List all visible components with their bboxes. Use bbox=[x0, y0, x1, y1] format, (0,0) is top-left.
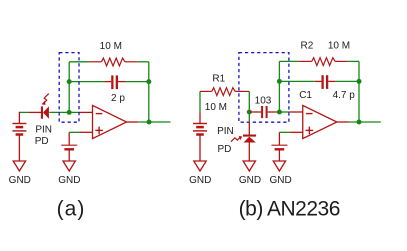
svg-text:4.7 p: 4.7 p bbox=[333, 90, 356, 101]
node dot B5 output bbox=[357, 120, 362, 125]
bias cell (a) bbox=[61, 132, 77, 161]
node dot B2 bbox=[277, 110, 282, 115]
wire top row to R2 bbox=[279, 60, 299, 62]
wire photodiode to inverting node bbox=[49, 111, 79, 113]
wire top row to resistor (a) bbox=[69, 61, 89, 63]
node dot B1 bbox=[247, 110, 252, 115]
battery V1 bbox=[12, 124, 26, 161]
capacitor 103 bbox=[249, 106, 279, 118]
wire C1 to right vertical bbox=[336, 80, 359, 82]
wire cap to right vertical (a) bbox=[126, 81, 149, 83]
node dot A2 bbox=[67, 79, 72, 84]
ground under photodiode D2 bbox=[239, 161, 261, 186]
inverting input stub (b) bbox=[290, 111, 303, 113]
wire cap row left (a) bbox=[69, 81, 104, 83]
svg-text:PD: PD bbox=[35, 136, 49, 147]
battery V2 bbox=[193, 91, 207, 160]
svg-text:GND: GND bbox=[239, 175, 261, 186]
svg-text:R1: R1 bbox=[212, 73, 225, 84]
svg-text:GND: GND bbox=[189, 175, 211, 186]
wire battery V1 top to photodiode (red corner + green segment) bbox=[19, 112, 41, 124]
svg-text:103: 103 bbox=[255, 95, 272, 106]
wire left vertical feedback (b) bbox=[278, 61, 280, 112]
svg-text:PIN: PIN bbox=[217, 126, 234, 137]
svg-text:PD: PD bbox=[217, 144, 231, 155]
node dot B3 bbox=[277, 79, 282, 84]
ground under bias cell (a) bbox=[58, 161, 80, 186]
output wire (a) bbox=[127, 121, 171, 123]
output wire (b) bbox=[337, 121, 381, 123]
svg-text:GND: GND bbox=[269, 175, 291, 186]
svg-text:GND: GND bbox=[58, 175, 80, 186]
svg-text:PIN: PIN bbox=[35, 124, 52, 135]
photodiode D1 (PIN PD) bbox=[41, 94, 49, 119]
wire node to inverting stub (b) bbox=[279, 111, 289, 113]
node dot A4 output bbox=[147, 120, 152, 125]
node dot B4 bbox=[357, 79, 362, 84]
non-inverting input stub (b) bbox=[279, 131, 302, 133]
capacitor C1 4.7p bbox=[315, 75, 336, 89]
photodiode D2 (PIN PD) bbox=[231, 112, 256, 161]
bias cell (b) bbox=[271, 132, 287, 161]
svg-text:(a): (a) bbox=[57, 198, 86, 221]
svg-text:GND: GND bbox=[9, 175, 31, 186]
wire right vertical (a) bbox=[148, 62, 150, 122]
ground under battery V1 bbox=[9, 161, 31, 186]
wire resistor to right vertical (a) bbox=[138, 61, 149, 63]
inverting input stub (a) bbox=[80, 111, 93, 113]
resistor R1 10M bbox=[200, 88, 249, 96]
svg-text:(b) AN2236: (b) AN2236 bbox=[239, 198, 340, 221]
ground under bias cell (b) bbox=[269, 161, 291, 186]
wire left vertical feedback (a) bbox=[68, 62, 70, 113]
node dot A3 bbox=[146, 79, 151, 84]
resistor R2 10M bbox=[299, 58, 348, 66]
capacitor 2p (a) bbox=[105, 75, 126, 89]
ground under battery V2 bbox=[189, 161, 211, 186]
svg-text:10 M: 10 M bbox=[100, 41, 122, 52]
op-amp U2 bbox=[303, 105, 337, 138]
wire R2 to right vertical bbox=[348, 60, 359, 62]
node dot A1 bbox=[67, 110, 72, 115]
svg-text:10 M: 10 M bbox=[205, 102, 227, 113]
svg-text:R2: R2 bbox=[301, 40, 314, 51]
resistor 10M (a) bbox=[89, 58, 138, 66]
op-amp U1 bbox=[93, 105, 127, 138]
wire C1 row left bbox=[279, 80, 314, 82]
dashed box (b) bbox=[239, 53, 289, 123]
label PIN PD (a) bbox=[35, 124, 52, 147]
svg-text:10 M: 10 M bbox=[328, 40, 350, 51]
wire right vertical (b) bbox=[358, 61, 360, 122]
svg-text:2 p: 2 p bbox=[111, 93, 125, 104]
wire R1 down to node bbox=[248, 91, 250, 112]
non-inverting input stub (a) bbox=[69, 131, 92, 133]
label PIN PD (b) bbox=[217, 126, 234, 155]
dashed box (a) bbox=[59, 53, 79, 123]
svg-text:C1: C1 bbox=[299, 90, 312, 101]
